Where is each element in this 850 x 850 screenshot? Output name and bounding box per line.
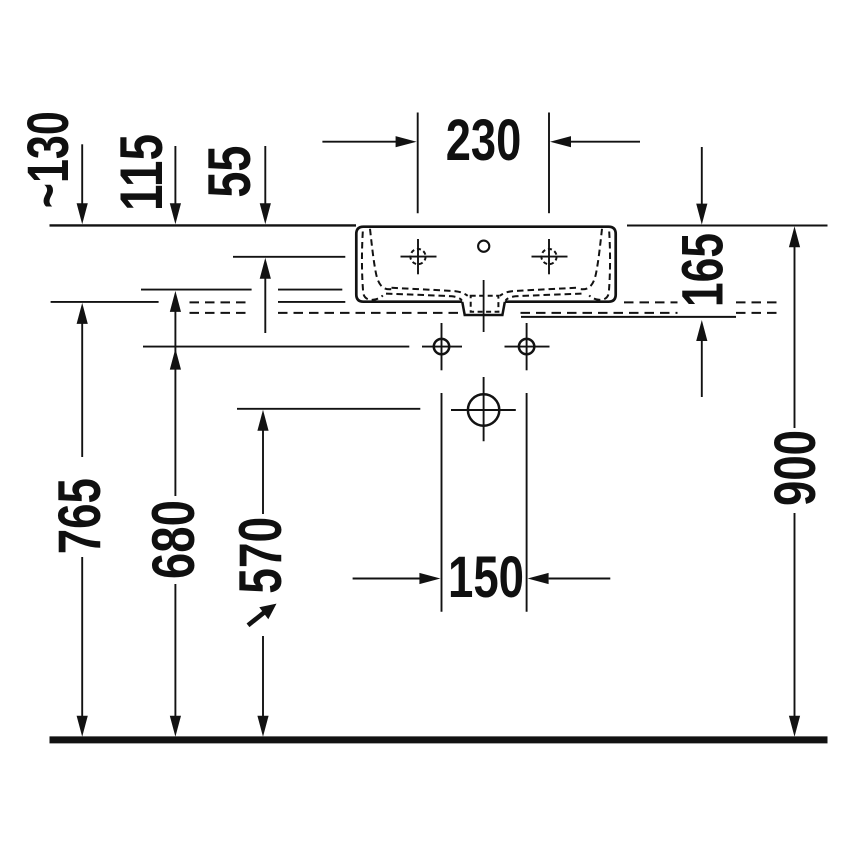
reference line 680-level	[143, 346, 409, 348]
reference line 115-level right part	[278, 289, 342, 291]
drain hidden dashed rectangle	[471, 296, 499, 312]
dimension 150 left arrow	[353, 578, 421, 580]
tap hole left crosshair	[401, 256, 437, 258]
reference line 115-level left part	[141, 289, 252, 291]
svg-text:150: 150	[448, 545, 524, 610]
dimension ~130 down arrow at x82	[81, 144, 83, 204]
mounting hole right crosshair	[505, 346, 550, 348]
reference line 765-level	[51, 301, 159, 303]
svg-text:900: 900	[763, 430, 828, 506]
dimension 115 down arrow at x175	[174, 146, 176, 204]
dimension 900 down arrow at floor	[789, 716, 800, 737]
basin inner wall right outer dashed curve	[589, 232, 610, 300]
wall line left segment	[50, 224, 357, 226]
dimension 680 line lower part	[174, 584, 176, 718]
overflow hole circle	[478, 241, 489, 252]
svg-text:~130: ~130	[16, 111, 81, 208]
washbasin outline	[356, 227, 615, 302]
dimension 230 left arrow	[322, 141, 396, 143]
dimension 765 down arrow at floor	[77, 716, 88, 737]
dimension 230 extension lines	[417, 113, 419, 214]
dimension 165 up arrow	[696, 320, 707, 341]
tap hole right crosshair	[532, 256, 568, 258]
dimension 570 down arrow at floor	[257, 716, 268, 737]
basin bottom lower dashed line left	[386, 294, 462, 301]
drain center line	[483, 280, 485, 332]
mounting hole right circle	[519, 339, 534, 354]
dimension 150 extension lines	[441, 393, 443, 612]
dimension 165 down arrow	[701, 147, 703, 205]
basin bottom upper dashed line left	[392, 288, 468, 296]
svg-text:115: 115	[108, 134, 175, 211]
tap hole left dashed circle	[410, 249, 425, 264]
basin bottom upper dashed line right	[500, 288, 576, 296]
svg-text:230: 230	[446, 108, 522, 173]
svg-text:680: 680	[140, 500, 207, 579]
svg-text:765: 765	[46, 478, 113, 554]
dimension 765 up arrow and line	[77, 303, 88, 324]
tap hole right dashed circle	[541, 249, 556, 264]
dimension 55 up arrow below	[260, 258, 271, 279]
dimension 680 down arrow at floor	[170, 716, 181, 737]
dimension 55 down arrow at x265	[264, 146, 266, 204]
drain fitting outline	[462, 302, 505, 315]
drain pipe crosshair	[451, 409, 516, 411]
reference line 570-level	[237, 408, 420, 410]
svg-text:165: 165	[671, 233, 736, 307]
dimension 570 up arrow	[257, 410, 268, 431]
wall line right segment	[627, 225, 828, 227]
mounting hole left crosshair	[422, 346, 462, 348]
mounting hole left circle	[434, 339, 449, 354]
basin inner wall left outer dashed curve	[362, 232, 383, 300]
reference line 55-level	[233, 256, 345, 258]
dimension 150 right arrow	[549, 578, 611, 580]
dimension 900 up arrow	[789, 226, 800, 247]
hidden dashed line sink-bottom-level	[190, 301, 778, 303]
svg-text:570: 570	[227, 517, 294, 594]
dimension 230 right arrow	[571, 141, 640, 143]
dimension 680 up arrowhead at reference line	[170, 349, 181, 370]
svg-text:55: 55	[196, 146, 263, 198]
floor line	[50, 736, 828, 743]
adjustable indicator diagonal arrow	[248, 613, 264, 626]
reference line sink-bottom-level solid right of shaft	[278, 301, 345, 303]
hidden dashed line lower-level	[190, 312, 778, 314]
basin inner wall right inner dashed curve	[580, 229, 602, 289]
dimension 115 up arrow below	[170, 291, 181, 312]
basin bottom lower dashed line right	[506, 294, 582, 301]
basin inner wall left inner dashed curve	[370, 229, 392, 289]
reference line 165-bottom-level	[521, 316, 736, 318]
drain pipe circle	[468, 394, 499, 425]
